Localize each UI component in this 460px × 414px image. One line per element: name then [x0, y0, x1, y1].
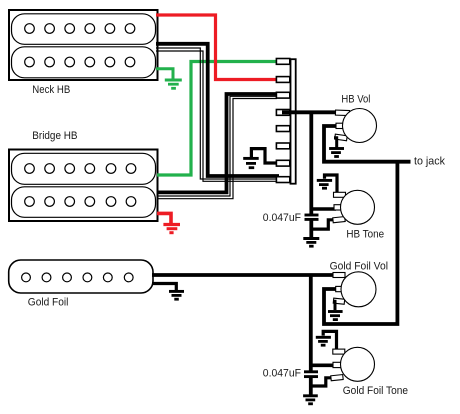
svg-text:HB Tone: HB Tone: [346, 228, 384, 240]
ground Gold Foil Tone bottom: [303, 396, 318, 404]
wire Gold Foil Vol terminal 3 to ground: [334, 301, 335, 310]
wire HB Tone terminal 3 to ground junction: [311, 220, 334, 229]
ground HB Vol: [329, 149, 344, 157]
wire neck thin 2: [156, 51, 278, 181]
wire Gold Foil Tone terminal 1 to ground: [323, 331, 336, 350]
svg-text:0.047uF: 0.047uF: [263, 368, 302, 380]
wire Gold Foil Tone terminal 3 to ground junction: [311, 378, 333, 386]
ground Gold Foil Vol: [328, 312, 343, 320]
svg-text:Neck HB: Neck HB: [32, 84, 70, 96]
svg-text:Gold Foil: Gold Foil: [28, 296, 69, 308]
switch terminal 3: [276, 92, 289, 98]
switch terminal 2: [276, 77, 289, 83]
wire HB Vol terminal 3 to ground: [334, 138, 337, 148]
wire switch terminal 4 to HB Vol terminal 1: [282, 110, 339, 114]
svg-text:Bridge HB: Bridge HB: [32, 130, 77, 142]
wire junction down to HB Tone capacitor: [309, 112, 313, 214]
wire Gold Foil hot to Gold Foil Vol terminal 1: [152, 273, 340, 277]
pickup Neck HB: [9, 10, 158, 80]
wire junction down to Gold Foil Tone capacitor: [309, 275, 313, 371]
svg-text:to jack: to jack: [414, 156, 446, 168]
potentiometer HB Vol: [335, 109, 377, 143]
wire bridge green hot to switch terminal 1: [157, 62, 277, 176]
capacitor 0.047uF Gold Foil: [304, 372, 318, 377]
ground at switch: [243, 158, 259, 167]
potentiometer Gold Foil Tone: [331, 347, 375, 381]
svg-text:HB Vol: HB Vol: [341, 93, 370, 105]
wire bridge thin 2: [157, 99, 277, 199]
ground HB Tone bottom: [303, 239, 319, 247]
wire capacitor to ground HB Tone: [309, 221, 313, 238]
wire HB Tone terminal 1 to ground: [325, 175, 338, 194]
capacitor 0.047uF HB: [305, 215, 319, 219]
switch body: [291, 59, 296, 184]
wire bridge red ground stub: [157, 213, 171, 223]
wire neck red hot to switch terminal 2: [156, 15, 277, 80]
ground neck green: [165, 80, 182, 88]
wire bridge thin 1: [157, 96, 277, 196]
switch terminal 1: [276, 59, 289, 65]
wire neck black thick to switch terminal 8: [156, 44, 279, 176]
ground bridge red: [163, 225, 180, 233]
switch terminal 6: [276, 143, 289, 149]
wire Gold Foil ground stub: [152, 284, 176, 291]
wire neck green ground stub: [156, 69, 173, 79]
switch terminal 7: [276, 160, 289, 166]
switch terminal 4: [276, 110, 289, 116]
potentiometer HB Tone: [333, 190, 375, 224]
wire switch terminal 7 to ground: [251, 149, 277, 163]
pickup Bridge HB: [9, 150, 158, 222]
switch terminal 8: [276, 177, 289, 183]
pickup Gold Foil: [9, 260, 153, 293]
wire HB Tone terminal 2 to capacitor junction: [311, 207, 336, 211]
potentiometer Gold Foil Vol: [333, 272, 376, 307]
wire neck thin 1: [156, 48, 278, 179]
wire jack bus down to Gold Foil Vol terminal 2: [324, 162, 397, 324]
ground Gold Foil Tone terminal 1: [316, 337, 331, 345]
svg-text:Gold Foil Vol: Gold Foil Vol: [330, 261, 388, 273]
wire capacitor to ground Gold Foil Tone: [309, 378, 313, 395]
wire HB Vol terminal 2 to jack: [324, 126, 411, 162]
svg-text:0.047uF: 0.047uF: [263, 212, 302, 224]
ground HB Tone terminal 1: [317, 180, 332, 188]
wire bridge black thick to switch terminal 3: [157, 94, 277, 192]
switch terminal 5: [276, 126, 289, 132]
wire Gold Foil Tone terminal 2 to capacitor junction: [311, 363, 336, 367]
ground Gold Foil: [169, 291, 184, 299]
svg-text:Gold Foil Tone: Gold Foil Tone: [343, 385, 408, 397]
